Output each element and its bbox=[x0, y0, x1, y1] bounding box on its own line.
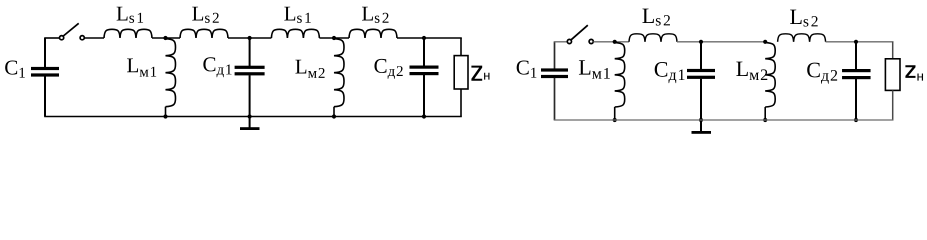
inductor Lm2 bbox=[765, 43, 775, 107]
wire bbox=[397, 37, 462, 39]
ground bbox=[240, 117, 260, 131]
label Ls2 bbox=[362, 7, 389, 23]
inductor Ls2 bbox=[629, 34, 677, 42]
ground bbox=[692, 120, 712, 134]
node junction bbox=[332, 36, 336, 40]
wire bbox=[44, 37, 59, 39]
wire bbox=[892, 90, 894, 120]
label Lm1 bbox=[127, 58, 156, 76]
node junction bbox=[163, 114, 167, 118]
label Zn bbox=[471, 66, 489, 81]
node junction bbox=[763, 40, 767, 44]
wire bbox=[460, 89, 462, 117]
label Ls2 bbox=[790, 10, 818, 27]
wire bbox=[554, 41, 568, 43]
node junction bbox=[854, 40, 858, 44]
node junction bbox=[248, 114, 252, 118]
label Cd2 bbox=[807, 63, 837, 84]
node junction bbox=[163, 36, 167, 40]
wire bbox=[764, 107, 766, 120]
inductor Ls1 bbox=[271, 29, 319, 38]
wire bbox=[554, 42, 556, 69]
node junction bbox=[613, 118, 617, 122]
wire bbox=[228, 37, 271, 39]
label Zn bbox=[905, 65, 923, 80]
capacitor Cd1 bbox=[235, 66, 265, 76]
node junction bbox=[332, 114, 336, 118]
wire bbox=[614, 107, 616, 120]
wire bbox=[554, 119, 894, 121]
wire bbox=[319, 37, 349, 39]
wire bbox=[44, 116, 462, 118]
wire bbox=[593, 41, 629, 43]
inductor Lm2 bbox=[334, 39, 344, 107]
wire bbox=[249, 38, 251, 66]
wire bbox=[152, 37, 180, 39]
wire bbox=[855, 79, 857, 120]
resistor Zn load bbox=[885, 59, 900, 91]
label C1 bbox=[517, 60, 537, 77]
wire bbox=[826, 41, 894, 43]
inductor Ls2 bbox=[778, 34, 826, 42]
wire bbox=[333, 107, 335, 117]
wire bbox=[423, 38, 425, 66]
wire bbox=[44, 38, 46, 67]
wire bbox=[44, 76, 46, 116]
wire bbox=[855, 42, 857, 70]
inductor Lm1 bbox=[166, 39, 176, 107]
resistor Zn load bbox=[454, 56, 468, 89]
inductor Lm1 bbox=[615, 43, 625, 107]
label Cd1 bbox=[203, 57, 231, 77]
capacitor Cd1 bbox=[687, 69, 715, 79]
capacitor Cd2 bbox=[410, 66, 439, 76]
label Lm2 bbox=[295, 60, 324, 78]
node junction bbox=[422, 36, 426, 40]
label Ls1 bbox=[284, 7, 310, 23]
capacitor C1 bbox=[541, 68, 568, 78]
label Cd1 bbox=[655, 62, 685, 83]
node junction bbox=[422, 114, 426, 118]
capacitor C1 bbox=[31, 67, 59, 77]
switch bbox=[60, 23, 85, 40]
wire bbox=[700, 79, 702, 120]
wire bbox=[460, 38, 462, 56]
wire bbox=[423, 75, 425, 117]
wire bbox=[84, 37, 104, 39]
label Cd2 bbox=[374, 59, 402, 79]
node junction bbox=[699, 40, 703, 44]
capacitor Cd2 bbox=[842, 69, 871, 79]
node junction bbox=[763, 118, 767, 122]
label Ls2 bbox=[642, 9, 670, 26]
node junction bbox=[854, 118, 858, 122]
node junction bbox=[699, 118, 703, 122]
wire bbox=[249, 75, 251, 116]
node junction bbox=[248, 36, 252, 40]
switch bbox=[567, 25, 593, 43]
inductor Ls2 bbox=[349, 29, 397, 38]
inductor Ls1 bbox=[104, 29, 152, 38]
label Ls1 bbox=[117, 7, 143, 23]
wire bbox=[165, 107, 167, 117]
wire bbox=[892, 42, 894, 59]
label C1 bbox=[5, 60, 25, 77]
wire bbox=[677, 41, 765, 43]
node junction bbox=[613, 40, 617, 44]
label Lm1 bbox=[579, 60, 610, 78]
wire bbox=[554, 78, 556, 120]
inductor Ls2 bbox=[180, 29, 228, 38]
label Ls2 bbox=[192, 7, 219, 23]
label Lm2 bbox=[736, 62, 767, 80]
wire bbox=[700, 42, 702, 69]
